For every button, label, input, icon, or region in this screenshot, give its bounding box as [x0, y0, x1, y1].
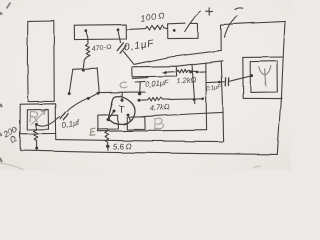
- label 200 Ω: [1, 124, 23, 147]
- svg-text:4,7kΩ: 4,7kΩ: [150, 102, 171, 112]
- paper background: [0, 0, 291, 170]
- node dead-end: [68, 92, 71, 95]
- resistor R5 5,6Ω: [105, 130, 109, 151]
- capacitor C1 0,1μF coupling curve (from RX to emitter node): [38, 117, 60, 126]
- node RX terminal: [35, 123, 38, 126]
- wire rail2: [56, 140, 224, 142]
- node H2 corner: [97, 92, 100, 95]
- wire rail3 right riser: [277, 99, 281, 155]
- node T1 left tap: [84, 29, 87, 32]
- wire battery + lead (curved): [185, 12, 201, 32]
- node R4 crossing: [193, 98, 196, 101]
- label c (pencil): [120, 82, 127, 88]
- label B (pencil): [155, 119, 164, 130]
- resistor R3 1,2kΩ: [163, 69, 206, 73]
- wire rail3 (outermost ground loop): [20, 134, 277, 155]
- resistor R4 4,7kΩ: [139, 97, 202, 101]
- node emitter box: [107, 119, 110, 122]
- emitter box: [98, 115, 118, 129]
- wire base lead: [128, 115, 130, 120]
- capacitor C1 plates: [60, 112, 65, 118]
- label E (pencil): [90, 128, 95, 135]
- wire emitter lead: [109, 112, 114, 119]
- battery box B1 (top right small): [168, 23, 198, 38]
- earphone box P1 (tall left box): [27, 21, 54, 102]
- node Q1 emitter pin: [113, 110, 116, 113]
- label +: [206, 8, 213, 15]
- svg-text:T: T: [119, 105, 125, 116]
- wire V1: [205, 62, 208, 130]
- wire base to V2: [143, 112, 222, 116]
- node Q1 base pin: [127, 113, 130, 116]
- node T1 right tap: [117, 28, 120, 31]
- headphone symbol (pencil trident): [259, 66, 271, 86]
- headphone outer box (right): [243, 57, 283, 99]
- node Q1 collector pin: [121, 99, 124, 102]
- wire rail2 left riser (from RX box): [55, 133, 57, 139]
- node C1 out: [87, 97, 90, 100]
- base box: [127, 117, 145, 130]
- label -: [235, 8, 242, 10]
- transistor Q1 body: [109, 96, 135, 124]
- wire W1 (power box to C2/RC corner): [134, 50, 221, 64]
- wire left stub down to dead-end node: [69, 69, 73, 93]
- wire V2: [221, 61, 223, 141]
- node R5 bottom: [107, 145, 110, 148]
- capacitor C2 0,1μF (diagonal, top): [118, 31, 121, 43]
- node R4 right: [201, 97, 204, 100]
- node R1 bottom: [82, 69, 85, 72]
- node R3 right b: [196, 71, 199, 74]
- wire collector tick: [121, 93, 123, 99]
- node C4 left: [219, 81, 222, 84]
- wire H0 (under 470Ω): [73, 68, 97, 69]
- node C3 bottom junction: [138, 92, 141, 95]
- resistor R1 470Ω: [83, 32, 90, 69]
- svg-text:5,6 Ω: 5,6 Ω: [113, 142, 132, 152]
- node B1: [173, 29, 176, 32]
- wire crosslink W2 to R4 row: [192, 65, 195, 104]
- node R3 mid: [164, 71, 167, 74]
- wire W2 (RC to V2 top): [177, 61, 223, 66]
- wire rail1: [97, 130, 206, 131]
- power box (big top right): [221, 21, 285, 57]
- node R4 left: [138, 99, 141, 102]
- node output cap right: [250, 74, 253, 77]
- headphone inner box: [250, 61, 277, 92]
- RC loop rectangle: [132, 66, 176, 77]
- wire right riser of H0: [97, 68, 99, 92]
- transformer box T1 (top middle): [74, 25, 126, 40]
- wire battery - lead (curved): [224, 16, 237, 37]
- wire H2 (to 0,01μF bottom): [99, 91, 145, 94]
- resistor R6 200Ω body: [34, 126, 38, 148]
- wire link node to corner: [88, 93, 98, 99]
- label RX (pencil): [30, 111, 45, 125]
- pencil smudge marks (edges): [0, 3, 11, 163]
- detector outer box RX: [20, 104, 56, 134]
- capacitor C4 0,1μF (output): [206, 81, 224, 84]
- node R3 right a: [189, 71, 192, 74]
- detector inner box RX: [27, 109, 48, 129]
- capacitor C3 0,01μF: [132, 77, 147, 92]
- wire rail1 left riser (from emitter box): [96, 129, 98, 131]
- resistor R2 100Ω: [126, 26, 167, 30]
- node 200Ω rail junction: [35, 147, 38, 150]
